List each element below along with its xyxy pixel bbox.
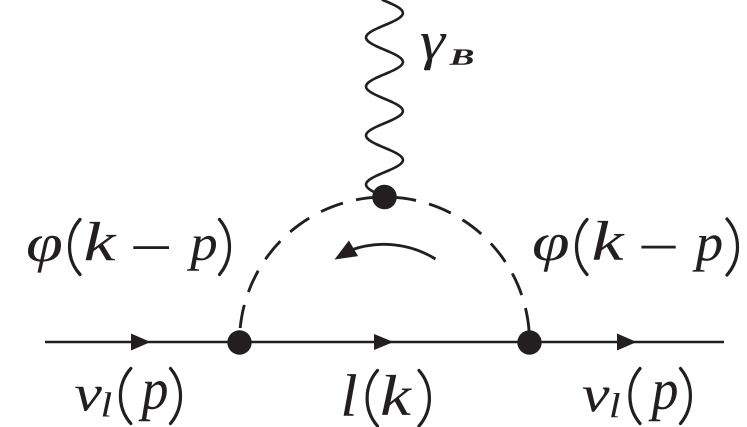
node: photon vertex	[372, 185, 397, 210]
label: phi(k-p) left scalar line	[28, 220, 230, 275]
label: l(k) internal lepton	[344, 371, 430, 427]
label: gamma_B photon name	[421, 34, 473, 70]
momentum arrowhead	[335, 241, 359, 260]
wire: dashed scalar loop (phi propagator semicircle)	[240, 197, 530, 342]
momentum arrow arc inside loop	[351, 244, 436, 259]
label: nu_l(p) left external neutrino	[75, 369, 180, 424]
node: right vertex	[517, 330, 541, 354]
arrow on left fermion leg	[131, 334, 151, 351]
node: left vertex	[227, 330, 251, 354]
arrow on internal fermion line	[374, 334, 394, 350]
arrow on right fermion leg	[617, 334, 637, 351]
label: nu_l(p) right external neutrino	[583, 369, 691, 424]
wire: external + internal fermion line	[45, 341, 724, 344]
label: phi(k-p) right scalar line	[534, 219, 737, 275]
wire: wavy photon line	[366, 0, 403, 196]
